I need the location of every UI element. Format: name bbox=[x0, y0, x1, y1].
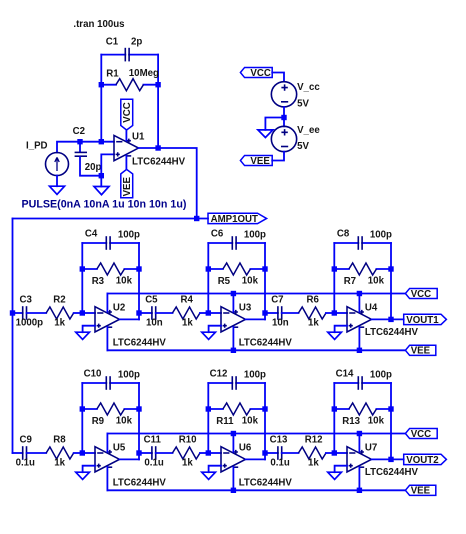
capacitor C11 bbox=[152, 446, 156, 460]
ground at U7 non-inv input bbox=[328, 472, 342, 479]
svg-text:C8: C8 bbox=[337, 229, 350, 240]
wire U2 output bbox=[120, 318, 140, 320]
wire U4 V+ pin bbox=[358, 294, 360, 312]
junction C11 tap bbox=[136, 450, 141, 455]
ground at supply midpoint bbox=[258, 130, 273, 138]
junction U7 input node bbox=[332, 450, 337, 455]
svg-text:10Meg: 10Meg bbox=[129, 68, 159, 79]
wire U3 non-inv to ground bbox=[209, 326, 221, 333]
svg-text:LTC6244HV: LTC6244HV bbox=[365, 467, 419, 478]
net flag VEE row VOUT1 bbox=[405, 345, 435, 355]
junction feedback left / input node bbox=[99, 139, 104, 144]
wire R5 left lead bbox=[208, 268, 223, 270]
wire C6 left lead bbox=[208, 242, 232, 244]
junction U4 V- on VEE rail bbox=[357, 348, 362, 353]
svg-text:1k: 1k bbox=[182, 318, 193, 329]
op-amp U6 bbox=[221, 447, 246, 472]
wire feedback right vertical U5 stage bbox=[138, 383, 140, 459]
wire AMP1OUT horizontal bbox=[13, 218, 209, 220]
svg-text:0.1u: 0.1u bbox=[270, 458, 289, 469]
wire U6 output bbox=[246, 458, 266, 460]
svg-text:I_PD: I_PD bbox=[26, 141, 48, 152]
svg-text:VOUT2: VOUT2 bbox=[406, 455, 438, 466]
svg-text:V_ee: V_ee bbox=[297, 125, 320, 136]
junction R13 left bbox=[332, 406, 337, 411]
wire U1 non-inv input to ground node bbox=[101, 154, 114, 175]
svg-text:VCC: VCC bbox=[411, 289, 431, 300]
junction U3 V- on VEE rail bbox=[231, 348, 236, 353]
svg-text:10k: 10k bbox=[368, 416, 385, 427]
svg-text:R11: R11 bbox=[216, 416, 234, 427]
svg-text:V_cc: V_cc bbox=[297, 82, 320, 93]
junction U4 V+ on VCC rail bbox=[357, 291, 362, 296]
wire C1 left lead bbox=[101, 54, 125, 56]
wire C12 right lead bbox=[236, 382, 265, 384]
svg-text:VCC: VCC bbox=[250, 68, 270, 79]
wire C10 right lead bbox=[110, 382, 139, 384]
net flag VOUT1 bbox=[404, 314, 447, 324]
junction U7 output bbox=[388, 457, 393, 462]
wire U7 V- pin bbox=[358, 467, 360, 490]
svg-text:100p: 100p bbox=[118, 370, 140, 381]
capacitor C7 bbox=[278, 306, 282, 320]
wire feedback right vertical bbox=[157, 55, 159, 148]
svg-text:20p: 20p bbox=[85, 162, 102, 173]
wire U5 V- pin bbox=[106, 467, 108, 490]
wire C4 right lead bbox=[110, 242, 139, 244]
current source I_PD bbox=[46, 153, 69, 176]
junction C7 tap bbox=[262, 310, 267, 315]
svg-text:C1: C1 bbox=[106, 36, 119, 47]
wire R5 right lead bbox=[250, 268, 265, 270]
wire R7 left lead bbox=[334, 268, 349, 270]
junction U4 output bbox=[388, 317, 393, 322]
wire supply midpoint to ground bbox=[265, 118, 284, 130]
svg-text:C13: C13 bbox=[270, 435, 288, 446]
wire C14 left lead bbox=[334, 382, 358, 384]
junction R7 right bbox=[388, 266, 393, 271]
junction U5 input node bbox=[80, 450, 85, 455]
junction R3 right bbox=[136, 266, 141, 271]
voltage source V_cc bbox=[271, 82, 296, 107]
resistor R2 bbox=[46, 307, 74, 319]
wire C11 left lead bbox=[139, 452, 152, 454]
wire U2 V- pin bbox=[106, 327, 108, 350]
junction C2 top node bbox=[77, 139, 82, 144]
wire to U6 inv input bbox=[208, 452, 221, 454]
capacitor C2 bbox=[75, 152, 87, 156]
capacitor C3 bbox=[23, 306, 27, 320]
wire R8 right lead bbox=[74, 452, 83, 454]
wire U6 non-inv to ground bbox=[209, 466, 221, 473]
wire U6 V- pin bbox=[232, 467, 234, 490]
svg-text:C12: C12 bbox=[210, 369, 228, 380]
net flag AMP1OUT bbox=[208, 213, 267, 223]
ground below I_PD bbox=[50, 186, 65, 194]
wire R13 right lead bbox=[376, 408, 391, 410]
svg-text:5V: 5V bbox=[297, 98, 309, 109]
svg-text:C4: C4 bbox=[85, 229, 98, 240]
svg-text:R3: R3 bbox=[92, 276, 105, 287]
wire R6 right lead bbox=[326, 312, 334, 314]
wire U4 non-inv to ground bbox=[335, 326, 347, 333]
svg-text:PULSE(0nA 10nA 1u 10n 10n 1u): PULSE(0nA 10nA 1u 10n 10n 1u) bbox=[22, 199, 187, 211]
wire U7 V+ pin bbox=[358, 434, 360, 452]
wire to U2 inv input bbox=[82, 312, 95, 314]
wire U5 output bbox=[120, 458, 140, 460]
wire C2 top lead bbox=[79, 142, 81, 152]
junction C2 ground node bbox=[99, 173, 104, 178]
junction row1 input tee bbox=[10, 310, 15, 315]
svg-text:LTC6244HV: LTC6244HV bbox=[239, 338, 293, 349]
svg-text:100p: 100p bbox=[370, 230, 392, 241]
wire feedback right vertical U7 stage bbox=[390, 383, 392, 459]
wire R4 right lead bbox=[200, 312, 208, 314]
wire C1 right lead bbox=[129, 54, 158, 56]
wire input node to U1 inv input bbox=[80, 141, 114, 143]
wire U2 non-inv to ground bbox=[83, 326, 95, 333]
svg-text:1k: 1k bbox=[308, 318, 319, 329]
junction R5 right bbox=[262, 266, 267, 271]
wire C12 left lead bbox=[208, 382, 232, 384]
svg-text:R2: R2 bbox=[53, 295, 65, 306]
net flag VEE row VOUT2 bbox=[405, 485, 435, 495]
wire C7 to R6 bbox=[282, 312, 299, 314]
svg-text:R8: R8 bbox=[53, 435, 66, 446]
wire feedback left vertical U4 stage bbox=[333, 243, 335, 313]
svg-text:5V: 5V bbox=[297, 141, 309, 152]
svg-text:C10: C10 bbox=[84, 369, 102, 380]
svg-text:AMP1OUT: AMP1OUT bbox=[211, 214, 258, 225]
capacitor C10 bbox=[106, 376, 110, 390]
svg-text:10k: 10k bbox=[368, 276, 385, 287]
svg-text:U3: U3 bbox=[239, 302, 252, 313]
svg-text:10n: 10n bbox=[272, 318, 289, 329]
junction R9 right bbox=[136, 406, 141, 411]
junction U7 V- on VEE rail bbox=[357, 488, 362, 493]
svg-text:R6: R6 bbox=[307, 295, 320, 306]
svg-text:R9: R9 bbox=[92, 416, 105, 427]
junction U7 V+ on VCC rail bbox=[357, 431, 362, 436]
junction C13 tap bbox=[262, 450, 267, 455]
svg-text:10k: 10k bbox=[116, 276, 133, 287]
svg-text:C6: C6 bbox=[211, 229, 224, 240]
junction C5 tap bbox=[136, 310, 141, 315]
svg-text:VEE: VEE bbox=[411, 346, 431, 357]
resistor R13 bbox=[349, 403, 377, 415]
svg-text:LTC6244HV: LTC6244HV bbox=[132, 156, 186, 167]
resistor R12 bbox=[298, 447, 326, 459]
ground at U4 non-inv input bbox=[328, 332, 342, 339]
resistor R4 bbox=[172, 307, 200, 319]
wire C7 left lead bbox=[265, 312, 278, 314]
svg-text:10n: 10n bbox=[146, 318, 163, 329]
junction R9 left bbox=[80, 406, 85, 411]
wire feedback right vertical U3 stage bbox=[264, 243, 266, 319]
wire R10 right lead bbox=[200, 452, 208, 454]
svg-text:LTC6244HV: LTC6244HV bbox=[113, 478, 167, 489]
wire R1 right lead bbox=[143, 84, 158, 86]
wire C14 right lead bbox=[362, 382, 391, 384]
svg-text:VEE: VEE bbox=[122, 176, 133, 196]
svg-text:1000p: 1000p bbox=[16, 318, 44, 329]
svg-text:1k: 1k bbox=[54, 318, 65, 329]
wire I_PD to input node bbox=[57, 142, 80, 153]
wire VEE rail bbox=[107, 489, 405, 491]
wire U2 V+ pin bbox=[106, 294, 108, 312]
svg-text:LTC6244HV: LTC6244HV bbox=[365, 327, 419, 338]
wire U6 V+ pin bbox=[232, 434, 234, 452]
junction U6 V- on VEE rail bbox=[231, 488, 236, 493]
wire feedback left vertical U7 stage bbox=[333, 383, 335, 453]
wire C8 right lead bbox=[362, 242, 391, 244]
op-amp U5 bbox=[95, 447, 120, 472]
svg-text:U4: U4 bbox=[365, 302, 378, 313]
wire C5 left lead bbox=[139, 312, 152, 314]
svg-text:C5: C5 bbox=[145, 295, 158, 306]
wire I_PD to ground bbox=[56, 176, 58, 187]
svg-text:R10: R10 bbox=[179, 435, 197, 446]
op-amp U7 bbox=[347, 447, 372, 472]
svg-text:C2: C2 bbox=[73, 126, 85, 137]
svg-text:1k: 1k bbox=[182, 458, 193, 469]
svg-text:VCC: VCC bbox=[122, 102, 133, 122]
svg-text:10k: 10k bbox=[242, 416, 259, 427]
wire VCC rail bbox=[107, 293, 405, 295]
wire to U5 inv input bbox=[82, 452, 95, 454]
wire C10 left lead bbox=[82, 382, 106, 384]
svg-text:.tran 100us: .tran 100us bbox=[73, 19, 124, 30]
svg-text:0.1u: 0.1u bbox=[16, 458, 35, 469]
wire R3 left lead bbox=[82, 268, 97, 270]
wire U3 V- pin bbox=[232, 327, 234, 350]
junction R3 left bbox=[80, 266, 85, 271]
wire VCC rail bbox=[107, 433, 405, 435]
svg-text:10k: 10k bbox=[116, 416, 133, 427]
wire C2 bottom to ground node bbox=[80, 157, 101, 175]
junction R13 right bbox=[388, 406, 393, 411]
op-amp U3 bbox=[221, 307, 246, 332]
svg-text:C3: C3 bbox=[20, 295, 33, 306]
svg-text:R5: R5 bbox=[218, 276, 231, 287]
wire U7 output to VOUT2 bbox=[372, 458, 404, 460]
svg-text:U2: U2 bbox=[113, 302, 125, 313]
svg-text:U7: U7 bbox=[365, 442, 377, 453]
junction U3 V+ on VCC rail bbox=[231, 291, 236, 296]
wire C9 to R8 bbox=[27, 452, 47, 454]
svg-text:LTC6244HV: LTC6244HV bbox=[239, 478, 293, 489]
net flag VCC row VOUT2 bbox=[405, 428, 437, 438]
op-amp U2 bbox=[95, 307, 120, 332]
resistor R9 bbox=[97, 403, 125, 415]
wire V_ee to VEE flag bbox=[272, 152, 284, 161]
net flag VEE at V_ee bbox=[240, 155, 272, 165]
wire R7 right lead bbox=[376, 268, 391, 270]
wire left vertical feed to both filter rows bbox=[12, 219, 14, 454]
wire R1 left lead bbox=[101, 84, 116, 86]
capacitor C4 bbox=[106, 236, 110, 250]
svg-text:R12: R12 bbox=[305, 435, 323, 446]
wire R2 right lead bbox=[74, 312, 83, 314]
resistor R6 bbox=[298, 307, 326, 319]
wire U1 output down bbox=[139, 148, 197, 219]
wire to U7 inv input bbox=[334, 452, 347, 454]
junction R1 left bbox=[99, 82, 104, 87]
junction R11 left bbox=[206, 406, 211, 411]
resistor R3 bbox=[97, 263, 125, 275]
net flag VOUT2 bbox=[404, 454, 447, 464]
svg-text:VEE: VEE bbox=[411, 486, 431, 497]
net flag VEE below U1 bbox=[121, 169, 133, 197]
svg-text:R1: R1 bbox=[106, 69, 119, 80]
junction U4 input node bbox=[332, 310, 337, 315]
wire C13 left lead bbox=[265, 452, 278, 454]
ground below C2 bbox=[94, 187, 109, 195]
wire U7 non-inv to ground bbox=[335, 466, 347, 473]
capacitor C13 bbox=[278, 446, 282, 460]
svg-text:1k: 1k bbox=[308, 458, 319, 469]
svg-text:100p: 100p bbox=[370, 370, 392, 381]
wire to U3 inv input bbox=[208, 312, 221, 314]
wire C3 left lead bbox=[13, 312, 23, 314]
svg-text:100p: 100p bbox=[118, 230, 140, 241]
wire feedback left vertical U5 stage bbox=[81, 383, 83, 453]
capacitor C8 bbox=[358, 236, 362, 250]
ground at U5 non-inv input bbox=[76, 472, 90, 479]
resistor R10 bbox=[172, 447, 200, 459]
junction U3 input node bbox=[206, 310, 211, 315]
op-amp U1 bbox=[114, 135, 139, 160]
resistor R11 bbox=[223, 403, 251, 415]
svg-text:C9: C9 bbox=[20, 435, 33, 446]
svg-text:0.1u: 0.1u bbox=[144, 458, 163, 469]
svg-text:R13: R13 bbox=[342, 416, 360, 427]
wire C11 to R10 bbox=[156, 452, 173, 454]
wire C6 right lead bbox=[236, 242, 265, 244]
net flag VCC row VOUT1 bbox=[405, 288, 437, 298]
svg-text:VCC: VCC bbox=[411, 429, 431, 440]
capacitor C5 bbox=[152, 306, 156, 320]
wire C5 to R4 bbox=[156, 312, 173, 314]
svg-text:LTC6244HV: LTC6244HV bbox=[113, 338, 167, 349]
svg-text:U6: U6 bbox=[239, 442, 252, 453]
junction U6 V+ on VCC rail bbox=[231, 431, 236, 436]
ground at U6 non-inv input bbox=[202, 472, 216, 479]
wire U4 output to VOUT1 bbox=[372, 318, 404, 320]
svg-text:2p: 2p bbox=[131, 36, 142, 47]
junction supply midpoint bbox=[281, 115, 286, 120]
junction feedback to output bbox=[155, 145, 160, 150]
svg-text:U5: U5 bbox=[113, 442, 126, 453]
junction R5 left bbox=[206, 266, 211, 271]
capacitor C9 bbox=[23, 446, 27, 460]
svg-text:10k: 10k bbox=[242, 276, 259, 287]
wire C13 to R12 bbox=[282, 452, 299, 454]
wire R12 right lead bbox=[326, 452, 334, 454]
svg-text:100p: 100p bbox=[244, 230, 266, 241]
wire R3 right lead bbox=[124, 268, 139, 270]
wire feedback left vertical U2 stage bbox=[81, 243, 83, 313]
svg-text:C14: C14 bbox=[336, 369, 354, 380]
wire C9 left lead bbox=[13, 452, 23, 454]
wire VEE rail bbox=[107, 349, 405, 351]
svg-text:C7: C7 bbox=[271, 295, 283, 306]
wire feedback right vertical U4 stage bbox=[390, 243, 392, 319]
net flag VCC at V_cc bbox=[240, 67, 272, 77]
svg-text:R7: R7 bbox=[344, 276, 356, 287]
wire C3 to R2 bbox=[27, 312, 47, 314]
resistor R5 bbox=[223, 263, 251, 275]
capacitor C1 bbox=[125, 48, 129, 62]
svg-text:100p: 100p bbox=[244, 370, 266, 381]
wire U1 V- pin bbox=[125, 156, 127, 170]
resistor R1 bbox=[116, 79, 144, 91]
junction R7 left bbox=[332, 266, 337, 271]
wire feedback left vertical U6 stage bbox=[207, 383, 209, 453]
wire V_cc to V_ee bbox=[283, 107, 285, 126]
capacitor C14 bbox=[358, 376, 362, 390]
capacitor C12 bbox=[232, 376, 236, 390]
wire R9 left lead bbox=[82, 408, 97, 410]
wire feedback left vertical bbox=[100, 55, 102, 142]
wire U5 non-inv to ground bbox=[83, 466, 95, 473]
wire R11 left lead bbox=[208, 408, 223, 410]
wire U1 V+ pin bbox=[125, 130, 127, 140]
wire feedback right vertical U6 stage bbox=[264, 383, 266, 459]
wire U5 V+ pin bbox=[106, 434, 108, 452]
junction R11 right bbox=[262, 406, 267, 411]
svg-text:R4: R4 bbox=[181, 295, 194, 306]
svg-text:1k: 1k bbox=[54, 458, 65, 469]
junction AMP1OUT node bbox=[194, 216, 199, 221]
ground at U3 non-inv input bbox=[202, 332, 216, 339]
wire R13 left lead bbox=[334, 408, 349, 410]
resistor R8 bbox=[46, 447, 74, 459]
wire U4 V- pin bbox=[358, 327, 360, 350]
wire U3 V+ pin bbox=[232, 294, 234, 312]
wire feedback right vertical U2 stage bbox=[138, 243, 140, 319]
wire C4 left lead bbox=[82, 242, 106, 244]
wire R9 right lead bbox=[124, 408, 139, 410]
op-amp U4 bbox=[347, 307, 372, 332]
net flag VCC above U1 bbox=[121, 99, 133, 130]
wire U3 output bbox=[246, 318, 266, 320]
junction U2 input node bbox=[80, 310, 85, 315]
wire VCC flag to V_cc bbox=[272, 73, 284, 82]
wire ground node down bbox=[100, 176, 102, 187]
svg-text:VOUT1: VOUT1 bbox=[406, 315, 439, 326]
svg-text:C11: C11 bbox=[144, 435, 162, 446]
junction U6 input node bbox=[206, 450, 211, 455]
ground at U2 non-inv input bbox=[76, 332, 90, 339]
wire R11 right lead bbox=[250, 408, 265, 410]
svg-text:U1: U1 bbox=[132, 131, 145, 142]
wire to U4 inv input bbox=[334, 312, 347, 314]
svg-text:VEE: VEE bbox=[250, 156, 270, 167]
junction R1 right bbox=[155, 82, 160, 87]
wire feedback left vertical U3 stage bbox=[207, 243, 209, 313]
resistor R7 bbox=[349, 263, 377, 275]
capacitor C6 bbox=[232, 236, 236, 250]
wire C8 left lead bbox=[334, 242, 358, 244]
voltage source V_ee bbox=[271, 126, 296, 151]
